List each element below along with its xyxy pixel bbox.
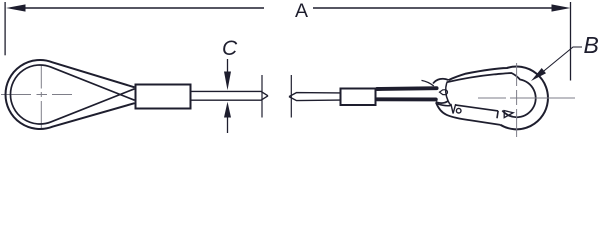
dimension A line right segment: [313, 7, 553, 9]
eye loop inner contour (strands crossing): [10, 65, 134, 124]
nose upper edge: [437, 104, 451, 106]
eye loop outer contour: [6, 60, 135, 129]
svg-text:C: C: [222, 37, 238, 60]
wire rope right segment (break point + 2 thin lines): [289, 93, 340, 101]
ferrule 1: [136, 85, 191, 109]
carabiner bottom contour (knob bottom to gate bottom edge): [436, 103, 501, 125]
break line right: [290, 75, 292, 118]
carabiner outer top edge into big-end outer circle: [449, 67, 548, 130]
ferrule 2: [341, 89, 376, 106]
gate hinge pin circle: [456, 108, 461, 113]
eye loop vertical centerline: [40, 65, 42, 129]
dimension A line left segment: [24, 7, 264, 9]
dimension A extension line left: [4, 2, 6, 55]
carabiner big-end vertical centerline: [516, 63, 518, 137]
thick rope upper bar: [377, 86, 437, 91]
eye loop horizontal centerline: [1, 94, 72, 96]
carabiner eye knob top arc: [433, 79, 449, 84]
rope tail end curve: [422, 80, 434, 86]
inner opening left rounded end: [446, 82, 452, 105]
svg-text:B: B: [584, 32, 599, 58]
dimension A extension line right: [570, 2, 572, 81]
carabiner eye knob bottom arc: [436, 101, 449, 103]
thick rope lower bar: [377, 97, 436, 101]
label B leader line: [542, 47, 582, 73]
wire rope left segment (2 thin lines converging to break point): [192, 91, 269, 100]
carabiner big-end horizontal centerline: [478, 97, 575, 99]
svg-text:A: A: [295, 0, 308, 22]
label B arrowhead: [531, 68, 546, 81]
gate end triangle mark: [504, 111, 513, 118]
dimension A arrowhead left: [6, 4, 26, 11]
dimension A arrowhead right: [552, 4, 571, 11]
carabiner eye slot: [440, 90, 448, 95]
gate end cap: [497, 111, 498, 118]
gate top line: [456, 105, 498, 111]
gate notch V: [451, 104, 456, 114]
dimension C lower arrow: [224, 102, 231, 118]
break line left: [261, 75, 263, 118]
dimension C upper arrow: [227, 59, 229, 74]
carabiner inner opening top edge and inner circle: [447, 73, 536, 117]
